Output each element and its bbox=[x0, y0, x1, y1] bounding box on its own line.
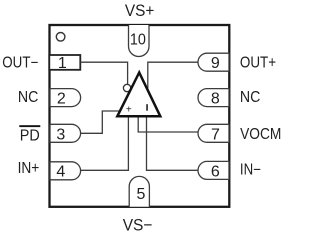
pin 5 shape bbox=[129, 176, 149, 206]
op-amp minus input label (rotated bar) bbox=[146, 104, 148, 111]
svg-text:4: 4 bbox=[56, 163, 65, 180]
svg-text:+: + bbox=[126, 104, 132, 115]
wire pin9 OUT+ to amplifier right slope bbox=[148, 62, 198, 91]
label PD overline (pin 3) bbox=[19, 125, 40, 127]
wire pin4 IN+ to amplifier bottom bbox=[80, 116, 128, 170]
svg-text:6: 6 bbox=[211, 163, 220, 180]
pin 6 shape bbox=[198, 161, 229, 179]
svg-text:NC: NC bbox=[18, 89, 39, 106]
svg-text:IN+: IN+ bbox=[18, 160, 40, 177]
wire pin3 PD to amplifier left slope bbox=[80, 111, 121, 133]
wire pin6 IN- to amplifier bottom bbox=[147, 116, 199, 170]
wire pin1 OUT- to inverting output bubble bbox=[80, 62, 127, 84]
svg-text:VS−: VS− bbox=[123, 216, 153, 235]
IC package outline U1 bbox=[50, 25, 230, 207]
svg-text:IN−: IN− bbox=[240, 162, 261, 179]
pin 8 shape bbox=[198, 89, 229, 107]
pin 1 box bbox=[49, 55, 80, 70]
pin-1 indicator circle bbox=[56, 33, 65, 42]
pin 3 shape bbox=[50, 124, 81, 142]
wire pin7 VOCM to amplifier bottom bbox=[138, 116, 198, 132]
pin 10 shape bbox=[129, 25, 150, 57]
pin 2 shape bbox=[50, 89, 81, 107]
svg-text:10: 10 bbox=[130, 31, 146, 48]
pin 7 shape bbox=[198, 124, 229, 142]
svg-text:1: 1 bbox=[58, 55, 67, 72]
svg-text:OUT+: OUT+ bbox=[240, 54, 276, 71]
svg-text:NC: NC bbox=[240, 89, 261, 106]
pin 9 shape bbox=[198, 53, 229, 71]
svg-text:OUT−: OUT− bbox=[2, 54, 38, 71]
svg-text:5: 5 bbox=[137, 186, 146, 203]
svg-text:VS+: VS+ bbox=[125, 1, 155, 20]
svg-text:7: 7 bbox=[211, 126, 220, 143]
svg-text:9: 9 bbox=[211, 55, 220, 72]
svg-text:PD: PD bbox=[20, 128, 40, 145]
svg-text:3: 3 bbox=[56, 126, 65, 143]
inverting output bubble bbox=[123, 84, 130, 91]
pin 4 shape bbox=[50, 162, 81, 180]
svg-text:8: 8 bbox=[211, 91, 220, 108]
svg-text:VOCM: VOCM bbox=[240, 126, 281, 143]
op-amp A1 triangle bbox=[117, 73, 160, 117]
svg-text:2: 2 bbox=[57, 91, 66, 108]
